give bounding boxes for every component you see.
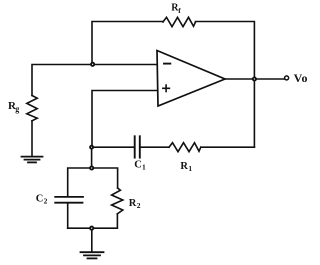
svg-text:R: R xyxy=(180,161,188,172)
svg-text:R: R xyxy=(129,198,137,209)
svg-text:1: 1 xyxy=(188,164,192,173)
svg-text:g: g xyxy=(15,104,19,113)
svg-text:f: f xyxy=(178,6,181,15)
svg-text:2: 2 xyxy=(137,201,141,210)
svg-text:C: C xyxy=(36,194,44,205)
svg-text:Vo: Vo xyxy=(294,71,308,85)
svg-text:2: 2 xyxy=(44,197,48,206)
svg-text:C: C xyxy=(134,160,142,171)
svg-text:1: 1 xyxy=(142,163,146,172)
